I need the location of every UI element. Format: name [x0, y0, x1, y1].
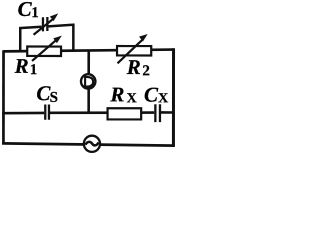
wire: right edge vertical	[172, 48, 175, 146]
wire: bottom wire through source	[2, 143, 175, 145]
svg-text:S: S	[50, 90, 58, 106]
svg-text:R: R	[14, 54, 29, 78]
wire: C1 loop left vertical	[19, 28, 22, 52]
label R1	[14, 54, 38, 78]
AC source circle	[84, 136, 100, 152]
capacitor CX plates	[155, 104, 160, 122]
detector D circle	[81, 74, 95, 88]
capacitor C1 adjustment arrow	[34, 13, 59, 34]
svg-text:X: X	[158, 91, 168, 106]
resistor RX body	[108, 108, 142, 119]
resistor R2 (variable) body	[117, 46, 151, 55]
resistor R1 adjustment arrow	[32, 36, 62, 61]
wire: middle horizontal wire (CS to CX)	[50, 111, 154, 114]
resistor R1 (variable) body	[27, 47, 61, 56]
wire: C1 loop right vertical	[72, 25, 75, 52]
label CS	[36, 81, 58, 106]
background paper	[0, 0, 180, 156]
svg-text:C: C	[144, 83, 159, 107]
label CX	[144, 83, 168, 107]
wire: top wire from left corner to right corner	[4, 49, 174, 51]
wire: middle horizontal wire (left part, to CS)	[2, 112, 44, 115]
svg-text:1: 1	[30, 62, 38, 78]
wire: left edge vertical	[2, 50, 5, 144]
svg-text:2: 2	[142, 63, 150, 79]
capacitor C1 (variable) plates	[43, 17, 47, 31]
wire: C1 loop top-right segment	[48, 25, 74, 27]
svg-text:1: 1	[31, 5, 39, 21]
label RX	[109, 82, 136, 106]
detector letter D	[85, 76, 93, 88]
label R2	[126, 55, 150, 79]
svg-text:R: R	[109, 82, 124, 106]
wire: center vertical through detector	[87, 51, 90, 113]
label C1	[18, 0, 39, 21]
capacitor CS plates	[45, 104, 49, 119]
svg-text:X: X	[127, 91, 137, 106]
resistor R2 adjustment arrow	[118, 34, 148, 63]
AC source sine symbol	[85, 142, 98, 146]
wire: C1 loop top-left segment	[19, 27, 42, 28]
svg-text:R: R	[126, 55, 141, 79]
wire: middle horizontal wire (CX to right edge)	[161, 111, 175, 114]
